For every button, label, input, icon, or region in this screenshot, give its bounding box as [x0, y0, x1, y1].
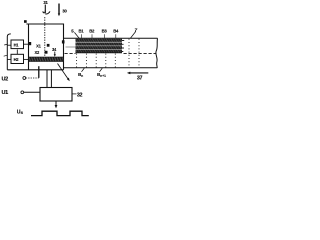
faint line box to band — [66, 46, 76, 48]
tape bottom edge — [64, 67, 158, 69]
leader 32 — [72, 93, 76, 95]
arrow below box32 — [55, 101, 57, 106]
wire wall to H1 — [7, 44, 11, 46]
wire U1 to box32 — [24, 91, 40, 93]
band streak 3 — [76, 49, 123, 51]
separator 6 — [128, 39, 130, 68]
svg-text:Bn+1: Bn+1 — [97, 72, 106, 78]
arrowhead of 30 — [58, 14, 60, 17]
separator 1 — [76, 54, 78, 68]
tick B2 — [91, 34, 93, 38]
box H1 — [11, 40, 24, 49]
svg-text:32: 32 — [77, 92, 83, 98]
wire drum to box32 right — [50, 70, 52, 88]
dot X2 — [45, 51, 48, 54]
background — [0, 0, 160, 120]
band ragged end ticks — [122, 41, 124, 52]
drum box — [26, 24, 63, 70]
tape top edge — [64, 37, 158, 39]
pivot dot — [24, 20, 27, 23]
terminal U1 — [21, 91, 24, 94]
separator 5 — [114, 54, 116, 68]
separator 3 — [95, 54, 97, 68]
separator 7 — [138, 39, 140, 68]
arrow 37 — [130, 72, 149, 74]
svg-text:Us: Us — [17, 110, 24, 116]
axis dotted line — [44, 17, 46, 56]
band streak 2 — [76, 45, 123, 47]
box 32 — [40, 88, 72, 102]
rotation arrowhead — [49, 11, 51, 13]
leader 5 — [74, 32, 79, 38]
pad on drum right edge — [62, 40, 65, 43]
tick B3 — [104, 34, 106, 38]
tick B1 — [81, 34, 83, 38]
thick wire to head — [38, 66, 40, 78]
diagonal arrow — [58, 64, 69, 80]
band streak 1 — [76, 41, 123, 43]
wire drum to box32 left — [46, 70, 48, 88]
pad on drum left edge — [28, 42, 31, 45]
waveform Us — [31, 111, 89, 115]
wire H1 to drum — [24, 43, 29, 45]
direction arrow 30 — [58, 4, 60, 15]
tape centerline right — [124, 52, 157, 54]
svg-text:37: 37 — [137, 75, 143, 81]
wall tick upper — [4, 43, 7, 46]
leader Bn — [82, 68, 85, 72]
dot X1 — [47, 44, 50, 47]
leader Bn+1 — [100, 68, 103, 72]
baseline — [7, 69, 63, 71]
arrow 34 — [54, 52, 56, 55]
axis line of rotation arrow — [44, 5, 46, 14]
svg-text:U2: U2 — [2, 76, 9, 82]
dashed wire U2 — [26, 77, 39, 79]
leader 7 — [130, 31, 136, 38]
head strip — [29, 57, 64, 62]
wire wall to H2 — [7, 58, 11, 60]
separator 2 — [85, 54, 87, 68]
rotation arrow hook — [43, 11, 50, 14]
svg-text:U1: U1 — [2, 90, 9, 96]
tape right end — [156, 38, 158, 68]
recorded band — [76, 39, 123, 53]
tick B4 — [115, 34, 117, 38]
wire H2 to drum — [24, 58, 29, 60]
tape centerline left stub — [65, 52, 76, 54]
band bottom edge — [76, 52, 123, 54]
separator 4 — [105, 54, 107, 68]
left wall — [7, 34, 11, 70]
wall tick lower — [4, 55, 8, 56]
wire H1 to H2 — [16, 50, 18, 55]
svg-text:Bn: Bn — [78, 72, 83, 78]
terminal U2 — [23, 77, 26, 80]
box H2 — [11, 54, 24, 63]
